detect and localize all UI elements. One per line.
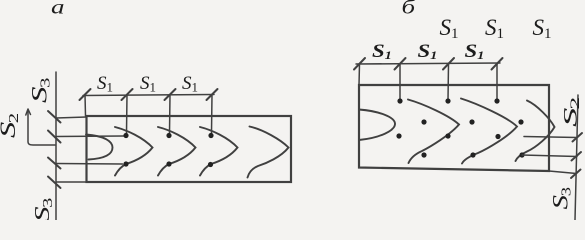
- rectangle a: [87, 116, 292, 182]
- leader arrowhead: [26, 109, 31, 115]
- tick b-top-3: [443, 58, 454, 70]
- tick b-right-2: [572, 152, 582, 161]
- svg-text:б: б: [402, 0, 417, 19]
- plume curve a-3: [200, 127, 238, 176]
- rectangle b: [359, 85, 549, 171]
- connector a-bottom-row: [56, 163, 123, 166]
- connector a-top-edge: [56, 117, 87, 118]
- tick a-left-2: [48, 131, 61, 143]
- connector a-bottom-edge: [56, 181, 88, 183]
- dot b-r3-2: [445, 133, 450, 138]
- label S1 b-dim-1: [372, 40, 392, 62]
- tick b-right-3: [571, 170, 581, 179]
- dot b-r2-2: [469, 119, 474, 124]
- connector b-row3: [524, 137, 578, 138]
- tick b-top-1: [354, 58, 365, 70]
- label S1 a-1: [97, 73, 113, 95]
- dot b-r1-1: [397, 98, 402, 103]
- tick a-left-1: [48, 111, 61, 123]
- tick a-top-3: [165, 89, 176, 100]
- tick a-top-1: [80, 89, 91, 100]
- label a: [51, 0, 64, 19]
- tick a-left-4: [48, 177, 61, 189]
- dot a-bottom-2: [166, 161, 171, 166]
- dot a-top-3: [208, 133, 213, 138]
- left bullet curve a: [86, 135, 113, 160]
- label S1 b-upper-3: [533, 15, 552, 42]
- chevron curve b-1: [408, 100, 459, 164]
- label S2 with leader: [0, 113, 21, 138]
- extension line a-3: [169, 95, 172, 133]
- dot a-top-1: [123, 133, 128, 138]
- plume curve a-2: [158, 127, 196, 176]
- dot b-r4-1: [421, 152, 426, 157]
- left dimension line a: [55, 72, 57, 220]
- dot b-r3-3: [495, 134, 500, 139]
- chevron curve b-3: [516, 101, 555, 162]
- dot b-r4-3: [519, 152, 524, 157]
- label S1 b-dim-2: [418, 40, 438, 62]
- plume curve a-1: [115, 127, 153, 176]
- dot b-r2-1: [421, 119, 426, 124]
- extension line b-1: [358, 64, 361, 85]
- connector b-row4: [522, 155, 577, 157]
- connector b-bottom: [549, 171, 577, 174]
- top dimension line a: [83, 95, 214, 96]
- tick a-left-3: [48, 158, 61, 169]
- dot b-r4-2: [470, 152, 475, 157]
- dot b-r1-2: [445, 98, 450, 103]
- extension line a-1: [84, 95, 87, 117]
- tick b-right-1: [573, 133, 583, 142]
- tick a-top-4: [207, 89, 218, 100]
- label S1 a-3: [182, 73, 198, 95]
- label S1 b-dim-3: [465, 40, 485, 62]
- extension line b-3: [447, 64, 450, 100]
- dot b-r2-3: [518, 119, 523, 124]
- connector a-top-row: [56, 135, 124, 138]
- dot a-top-2: [166, 133, 171, 138]
- label b: [402, 0, 417, 19]
- extension line b-2: [399, 64, 401, 100]
- plume curve a-4: [248, 127, 289, 178]
- extension line a-2: [126, 95, 129, 133]
- label S3 bottom: [30, 197, 55, 222]
- dot b-r3-1: [396, 133, 401, 138]
- label S1 b-upper-1: [440, 15, 459, 42]
- leader S2: [28, 110, 55, 145]
- dot a-bottom-3: [208, 162, 213, 167]
- label S1 b-upper-2: [485, 15, 504, 42]
- tick b-top-2: [395, 58, 406, 70]
- left bullet curve b: [359, 110, 395, 141]
- dot a-bottom-1: [123, 161, 128, 166]
- label S2 right: [560, 97, 582, 127]
- label S3 right: [548, 187, 574, 209]
- dot b-r1-3: [494, 98, 499, 103]
- tick b-top-4: [492, 58, 503, 70]
- top dimension line b: [356, 63, 500, 64]
- tick a-top-2: [122, 89, 133, 100]
- extension line a-4: [211, 95, 214, 133]
- svg-text:а: а: [51, 0, 64, 19]
- chevron curve b-2: [461, 99, 517, 164]
- right dimension line b: [575, 95, 578, 220]
- extension line b-4: [496, 64, 498, 100]
- label S3 top: [28, 77, 53, 103]
- label S1 a-2: [140, 73, 156, 95]
